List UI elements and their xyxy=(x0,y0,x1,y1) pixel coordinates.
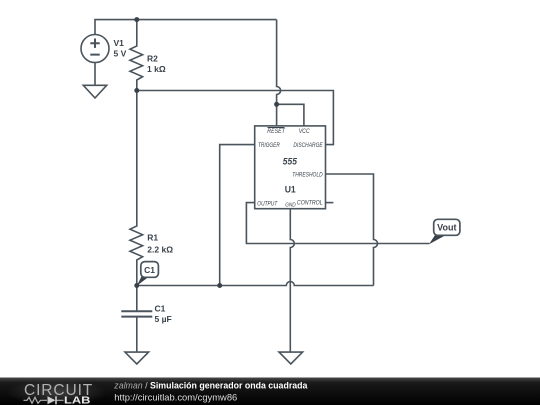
svg-text:C1: C1 xyxy=(155,303,166,313)
svg-text:1 kΩ: 1 kΩ xyxy=(147,64,166,74)
svg-text:R1: R1 xyxy=(147,233,158,243)
svg-text:GND: GND xyxy=(285,203,296,209)
svg-text:555: 555 xyxy=(283,156,298,167)
svg-text:5 V: 5 V xyxy=(114,49,127,59)
svg-text:zalman / Simulación generador: zalman / Simulación generador onda cuadr… xyxy=(113,381,307,391)
svg-text:5 µF: 5 µF xyxy=(155,314,172,324)
svg-text:VCC: VCC xyxy=(299,128,310,135)
svg-text:OUTPUT: OUTPUT xyxy=(257,200,278,207)
svg-text:LAB: LAB xyxy=(64,395,91,405)
svg-text:http://circuitlab.com/cgymw86: http://circuitlab.com/cgymw86 xyxy=(114,392,237,403)
svg-text:R2: R2 xyxy=(147,54,158,64)
svg-text:CONTROL: CONTROL xyxy=(297,200,323,207)
svg-text:TRIGGER: TRIGGER xyxy=(258,142,280,149)
svg-text:V1: V1 xyxy=(114,38,125,48)
svg-text:C1: C1 xyxy=(144,265,155,275)
svg-text:THRESHOLD: THRESHOLD xyxy=(292,171,323,178)
svg-text:Vout: Vout xyxy=(437,223,456,233)
svg-text:DISCHARGE: DISCHARGE xyxy=(293,142,323,149)
svg-text:2.2 kΩ: 2.2 kΩ xyxy=(147,245,173,255)
svg-text:U1: U1 xyxy=(285,185,297,196)
svg-text:RESET: RESET xyxy=(267,128,285,135)
